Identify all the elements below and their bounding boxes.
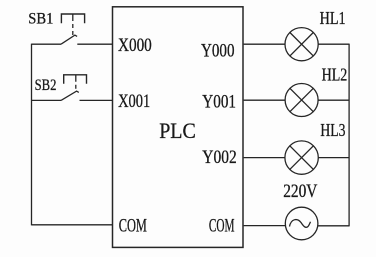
AC source 220V xyxy=(285,207,318,240)
svg-text:220V: 220V xyxy=(283,181,317,202)
svg-text:HL1: HL1 xyxy=(320,8,346,28)
PLC box U1 xyxy=(113,7,244,248)
wire SB2 left xyxy=(32,99,62,101)
wire Y000 to HL1 xyxy=(244,43,285,45)
switch SB2 blade xyxy=(61,91,79,100)
svg-text:Y000: Y000 xyxy=(201,41,235,62)
lamp HL2 xyxy=(285,84,318,117)
pushbutton SB2 cap xyxy=(64,75,87,84)
wire SB1 right to X000 xyxy=(77,43,112,45)
svg-text:HL2: HL2 xyxy=(322,65,348,85)
svg-text:Y001: Y001 xyxy=(202,92,236,113)
wire AC source to right bus xyxy=(318,225,349,227)
switch SB1 blade xyxy=(61,35,77,44)
lamp HL1 xyxy=(285,28,318,61)
svg-text:COM: COM xyxy=(119,215,147,236)
svg-text:PLC: PLC xyxy=(159,118,196,143)
wire COM left xyxy=(32,224,113,226)
svg-text:SB1: SB1 xyxy=(28,11,53,28)
wire Y002 to HL3 xyxy=(244,157,285,159)
left bus wire xyxy=(31,44,33,226)
svg-text:Y002: Y002 xyxy=(202,147,236,168)
wire SB2 right to X001 xyxy=(80,99,113,101)
svg-text:HL3: HL3 xyxy=(320,120,345,140)
lamp HL3 xyxy=(285,141,318,174)
wire Y001 to HL2 xyxy=(244,99,286,101)
wire SB1 left xyxy=(32,43,62,45)
pushbutton SB1 plunger (dashed) xyxy=(72,14,74,35)
pushbutton SB2 plunger (dashed) xyxy=(75,75,77,91)
svg-text:COM: COM xyxy=(209,215,235,236)
right bus wire xyxy=(348,44,350,227)
svg-text:X000: X000 xyxy=(118,35,152,56)
wire COM right to AC source xyxy=(244,225,286,227)
pushbutton SB1 cap xyxy=(61,14,84,23)
svg-text:SB2: SB2 xyxy=(35,77,57,94)
wire HL2 to right bus xyxy=(318,99,349,101)
svg-text:X001: X001 xyxy=(118,91,150,112)
wire HL3 to right bus xyxy=(318,157,349,159)
wire HL1 to right bus xyxy=(318,43,349,45)
